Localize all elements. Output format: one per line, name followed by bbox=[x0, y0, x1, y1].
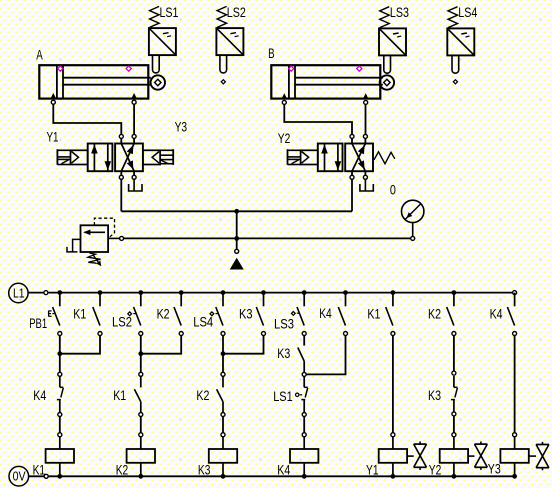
junction rung2 bbox=[138, 351, 143, 356]
contact LS3 (NO) bbox=[297, 293, 306, 336]
wire Y3 coil to valve symbol bbox=[529, 455, 536, 457]
pressure gauge O bbox=[402, 200, 424, 236]
wire K1 branch down and across bbox=[60, 336, 100, 354]
svg-text:Y2: Y2 bbox=[429, 462, 442, 478]
exhaust port bbox=[129, 179, 142, 191]
contact LS2 (NO) bbox=[134, 293, 143, 336]
wire cylinder A left port to valve Y1 port 4 bbox=[53, 104, 121, 134]
rail junction bbox=[391, 290, 396, 295]
junction P1 bbox=[234, 209, 239, 214]
cylinder B port arrows bbox=[282, 93, 287, 98]
contact K4 (seal-in) (NO) bbox=[338, 293, 347, 336]
svg-text:K2: K2 bbox=[428, 306, 441, 322]
rail L1 end terminal bbox=[513, 291, 517, 295]
junction terminal rung4 bbox=[302, 372, 306, 376]
svg-text:K3: K3 bbox=[428, 387, 441, 403]
svg-text:K1: K1 bbox=[73, 306, 86, 322]
solenoid Y3 bbox=[143, 149, 173, 165]
svg-text:K4: K4 bbox=[277, 462, 290, 478]
svg-text:LS4: LS4 bbox=[193, 314, 213, 330]
rail junction bbox=[452, 290, 457, 295]
svg-text:Y1: Y1 bbox=[366, 462, 379, 478]
solenoid valve symbol Y1 bbox=[414, 442, 427, 470]
valve body V2 (Y2) bbox=[318, 144, 373, 172]
supply terminal 0V bbox=[9, 466, 29, 486]
rail junction bbox=[302, 290, 307, 295]
contact K1 (seal-in) (NO) bbox=[93, 293, 102, 336]
svg-text:0: 0 bbox=[390, 182, 396, 198]
wire valve Y2 port 1 down bbox=[351, 179, 353, 211]
rail junction bbox=[221, 290, 226, 295]
junction on 0V rail bbox=[452, 474, 457, 479]
contact K2 (seal-in) (NO) bbox=[174, 293, 183, 336]
svg-text:Y1: Y1 bbox=[47, 128, 59, 144]
cylinder A rod roller (actuates LS1) bbox=[151, 75, 165, 89]
relay coil Y1 bbox=[379, 437, 407, 477]
valve 1 bottom port terminals bbox=[119, 175, 123, 179]
svg-text:LS2: LS2 bbox=[112, 314, 132, 330]
wire LS3 to K3 bbox=[303, 336, 305, 346]
junction on 0V rail bbox=[221, 474, 226, 479]
wire Y2 coil to valve symbol bbox=[468, 455, 474, 457]
relay coil K4 bbox=[290, 437, 318, 477]
junction on 0V rail end bbox=[512, 474, 517, 479]
rail 0V terminal bbox=[44, 474, 48, 478]
svg-text:L1: L1 bbox=[13, 287, 25, 301]
svg-text:K2: K2 bbox=[116, 462, 129, 478]
svg-text:LS2: LS2 bbox=[227, 4, 246, 20]
contact LS4 (NO) bbox=[216, 293, 225, 336]
contact K1 (NO) bbox=[386, 293, 395, 336]
wire K4 branch down and across bbox=[306, 336, 345, 375]
svg-text:K1: K1 bbox=[33, 462, 46, 478]
contact K2 (NO) bbox=[217, 376, 223, 413]
contact K4 (NO) bbox=[507, 293, 516, 336]
rail junction bbox=[98, 290, 103, 295]
relief valve adjustable spring bbox=[88, 253, 101, 266]
wire P trunk down to source bbox=[236, 211, 238, 249]
svg-text:A: A bbox=[36, 46, 43, 62]
cylinder B rod roller (actuates LS3) bbox=[380, 75, 394, 89]
contact K3 (NC) bbox=[451, 376, 457, 413]
valve body V1 (Y1/Y3) bbox=[88, 144, 143, 172]
junction on 0V rail bbox=[57, 474, 62, 479]
relief valve drain bbox=[67, 239, 81, 252]
contact K3 (NO, series) bbox=[298, 348, 304, 373]
junction on 0V rail bbox=[302, 474, 307, 479]
junction on 0V rail bbox=[138, 474, 143, 479]
svg-text:K4: K4 bbox=[33, 387, 46, 403]
solenoid valve symbol Y2 bbox=[475, 442, 488, 470]
svg-text:B: B bbox=[268, 45, 275, 61]
limit switch LS4 bbox=[447, 7, 474, 74]
cylinder B port terminals bbox=[282, 100, 286, 104]
svg-text:K1: K1 bbox=[113, 387, 126, 403]
source terminal bbox=[235, 249, 239, 253]
LS2 idle contact point bbox=[221, 80, 225, 84]
svg-text:K3: K3 bbox=[239, 306, 253, 322]
svg-text:K1: K1 bbox=[367, 306, 380, 322]
contact K2 (NO) bbox=[447, 293, 456, 336]
wire K4 to Y3 coil bbox=[514, 336, 516, 433]
valve 2 top port terminals bbox=[350, 134, 354, 138]
LS3 actuator mark bbox=[291, 312, 299, 316]
svg-text:Y3: Y3 bbox=[488, 461, 501, 477]
limit switch LS2 bbox=[216, 6, 243, 73]
rail junction bbox=[138, 290, 143, 295]
wire Y1 coil to valve symbol bbox=[407, 455, 414, 457]
relief valve body bbox=[81, 225, 109, 252]
junction P2 bbox=[234, 236, 239, 241]
svg-text:K2: K2 bbox=[157, 306, 170, 322]
cylinder A marker diamonds bbox=[58, 66, 63, 71]
svg-text:LS4: LS4 bbox=[458, 4, 477, 20]
pressure source bbox=[230, 258, 244, 270]
svg-text:K3: K3 bbox=[277, 345, 290, 361]
supply line P between valves bbox=[121, 210, 352, 212]
junction on 0V rail bbox=[391, 474, 396, 479]
cylinder B marker diamonds bbox=[289, 66, 294, 71]
svg-text:PB1: PB1 bbox=[29, 315, 47, 331]
svg-text:K4: K4 bbox=[490, 306, 503, 322]
svg-text:Y3: Y3 bbox=[175, 119, 188, 135]
contact LS1 (NC) bbox=[301, 376, 307, 413]
svg-text:LS3: LS3 bbox=[274, 315, 294, 331]
svg-text:K4: K4 bbox=[319, 305, 332, 321]
contact K1 (NO) bbox=[134, 376, 140, 413]
solenoid Y2 bbox=[288, 149, 318, 165]
relay coil K2 bbox=[127, 437, 155, 477]
rail 0V bbox=[29, 475, 515, 477]
contact K3 (seal-in) (NO) bbox=[256, 293, 265, 336]
pilot line to relief valve and gauge bbox=[124, 237, 411, 239]
wire K1 to Y1 coil bbox=[392, 336, 394, 433]
limit switch LS1 bbox=[149, 6, 176, 73]
rail junction bbox=[343, 290, 348, 295]
push button actuator mark bbox=[49, 311, 55, 317]
LS2 actuator mark bbox=[128, 312, 136, 316]
valve 1 top port terminals bbox=[119, 134, 123, 138]
wire cylinder A right port to valve Y1 port 2 bbox=[133, 104, 135, 134]
svg-text:K3: K3 bbox=[198, 462, 211, 478]
rail junction bbox=[179, 290, 184, 295]
relay coil K3 bbox=[209, 437, 237, 477]
svg-text:0V: 0V bbox=[13, 470, 27, 484]
supply terminal L1 bbox=[9, 283, 28, 302]
rail L1 bbox=[28, 292, 514, 294]
rail junction bbox=[57, 290, 62, 295]
wire K2 branch down and across bbox=[141, 336, 181, 354]
svg-text:K2: K2 bbox=[196, 387, 209, 403]
LS1 actuator mark bbox=[296, 393, 303, 396]
relief valve outlet terminal bbox=[120, 236, 124, 240]
wire to K4 contact bbox=[59, 354, 61, 373]
wire cylinder B left port to valve Y2 port 4 bbox=[284, 105, 352, 135]
contact K4 (NC) bbox=[57, 376, 63, 413]
wire PB1 to junction bbox=[59, 336, 61, 354]
solenoid valve symbol Y3 bbox=[536, 442, 549, 470]
cylinder A port arrows bbox=[51, 93, 56, 98]
LS4 idle contact point bbox=[453, 80, 457, 84]
limit switch LS3 bbox=[379, 7, 406, 74]
relay coil K1 bbox=[46, 437, 74, 477]
cylinder A port terminals bbox=[51, 100, 55, 104]
rail junction bbox=[261, 290, 266, 295]
wire K3 branch down and across bbox=[223, 336, 264, 354]
contact PB1 (NO) bbox=[53, 293, 62, 336]
junction rung1 bbox=[57, 351, 62, 356]
relief valve pilot line (dashed) bbox=[94, 218, 114, 238]
svg-text:LS3: LS3 bbox=[390, 4, 409, 20]
wire cylinder B right port to valve Y2 port 2 bbox=[365, 105, 367, 135]
cylinder B bbox=[271, 65, 383, 98]
svg-text:Y2: Y2 bbox=[278, 130, 291, 146]
wire valve Y1 port 1 down bbox=[120, 179, 122, 211]
LS4 actuator mark bbox=[210, 312, 218, 316]
solenoid Y1 bbox=[57, 149, 87, 165]
gauge terminal bbox=[411, 236, 415, 240]
cylinder A bbox=[39, 65, 151, 98]
exhaust port bbox=[360, 179, 373, 191]
junction rung3 bbox=[221, 351, 226, 356]
relay coil Y3 bbox=[500, 437, 528, 477]
svg-text:LS1: LS1 bbox=[160, 4, 179, 20]
svg-text:LS1: LS1 bbox=[273, 388, 293, 404]
valve 2 bottom port terminals bbox=[350, 175, 354, 179]
spring return bbox=[374, 152, 395, 164]
relay coil Y2 bbox=[440, 437, 468, 477]
rail L1 terminal bbox=[44, 291, 48, 295]
